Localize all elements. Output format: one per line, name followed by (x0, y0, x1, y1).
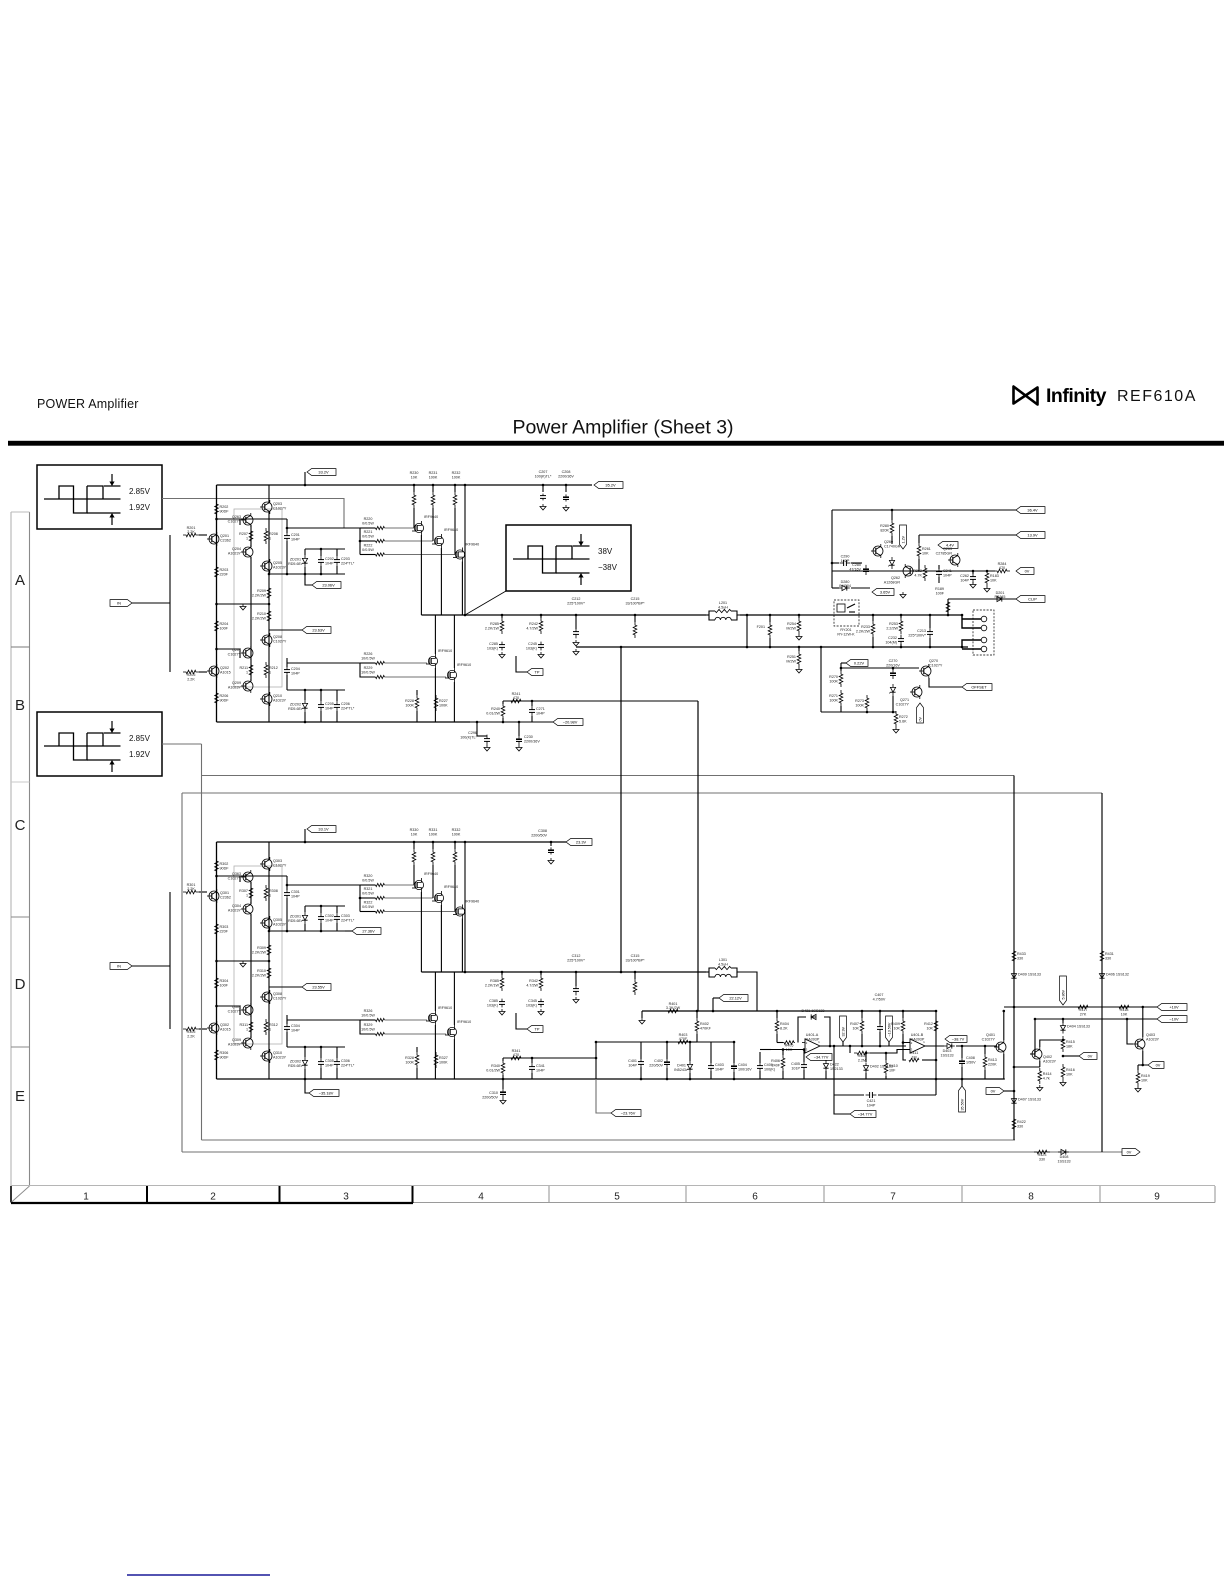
svg-text:224*TL*: 224*TL* (341, 562, 355, 566)
channel negative rail (217, 1078, 471, 1080)
wire offset row (821, 711, 896, 713)
capacitor C402 (666, 1058, 668, 1062)
transistor Q205 (262, 561, 272, 571)
op-amp U401-B (910, 1039, 925, 1053)
svg-text:103(K): 103(K) (526, 647, 537, 651)
wire from box B to feedback network (162, 743, 202, 745)
resistor R312 (264, 1019, 268, 1035)
svg-text:2.2M: 2.2M (858, 1059, 866, 1063)
svg-text:1.92V: 1.92V (129, 503, 151, 512)
capacitor C421 (834, 1094, 864, 1096)
capacitor C405 (803, 1061, 805, 1065)
svg-text:27.36V: 27.36V (362, 929, 375, 934)
resistor R241 (508, 699, 524, 703)
svg-text:1: 1 (246, 537, 248, 541)
resistor R403 (675, 1040, 691, 1044)
svg-text:0.01/2W: 0.01/2W (486, 1069, 500, 1073)
svg-text:2.85V: 2.85V (129, 734, 151, 743)
svg-text:3.65V: 3.65V (880, 590, 891, 595)
mosfet Q313 IRF9640 (455, 907, 464, 916)
svg-text:2200/36V: 2200/36V (558, 474, 574, 478)
capacitor C341 (531, 1063, 533, 1067)
svg-text:470F: 470F (679, 1037, 688, 1041)
resistor R251 (797, 651, 801, 667)
capacitor C206 (336, 701, 338, 705)
svg-text:103(K): 103(K) (487, 647, 498, 651)
svg-text:0/0.5W: 0/0.5W (362, 534, 374, 538)
wire lower fet column (434, 972, 436, 1011)
wire lower gate feeds (385, 662, 428, 664)
svg-text:0V: 0V (1025, 569, 1030, 574)
svg-text:IRF9610: IRF9610 (438, 1006, 452, 1010)
ground (902, 592, 904, 595)
svg-text:2.2K/1W: 2.2K/1W (485, 984, 500, 988)
svg-text:8: 8 (1028, 1192, 1034, 1203)
capacitor C345 (540, 999, 542, 1002)
svg-text:2.2K/2W: 2.2K/2W (856, 630, 871, 634)
svg-text:100K: 100K (829, 699, 838, 703)
wire input to bases (132, 965, 170, 967)
svg-text:100(K)TL*: 100(K)TL* (460, 735, 477, 739)
resistor R327 (434, 1052, 438, 1068)
resistor R417 (1075, 1005, 1091, 1009)
svg-text:C1027Y: C1027Y (228, 1009, 242, 1013)
resistor R221 (359, 528, 361, 555)
capacitor C303 (336, 913, 338, 917)
resistor R303 (215, 921, 219, 937)
wire left feedback drop A (201, 744, 203, 1140)
svg-text:100(K)TL*: 100(K)TL* (535, 474, 552, 478)
net tag -20.98V (470, 721, 553, 723)
svg-text:104P: 104P (291, 1029, 300, 1033)
resistor R203 (215, 564, 219, 580)
center ground rail (217, 603, 270, 605)
svg-text:A1268GR: A1268GR (884, 580, 901, 584)
svg-text:33.1V: 33.1V (318, 827, 329, 832)
svg-text:10K: 10K (1141, 1079, 1148, 1083)
resistor R329 (376, 1032, 385, 1035)
transistor Q207 (243, 648, 253, 658)
resistor R326 (287, 1019, 360, 1021)
wire Q401 collector (1003, 1011, 1005, 1040)
svg-text:100F: 100F (220, 627, 229, 631)
wire protection left drop (831, 510, 833, 588)
svg-text:1.2V: 1.2V (901, 535, 905, 543)
wire feedback riser (595, 1042, 597, 1079)
wire lower output rail (746, 615, 748, 647)
capacitor C385 (501, 999, 503, 1002)
svg-text:IRF9640: IRF9640 (444, 528, 458, 532)
svg-text:820K: 820K (880, 529, 889, 533)
wire right riser B (1101, 793, 1103, 1152)
resistor R418 (1116, 1005, 1132, 1009)
svg-text:A1015: A1015 (220, 1027, 231, 1031)
transistor Q262 (903, 566, 913, 576)
svg-text:−34.77V: −34.77V (814, 1055, 829, 1060)
capacitor C403 (710, 1062, 712, 1066)
channel Q3xx top supply rail (217, 841, 567, 843)
svg-text:470: 470 (513, 696, 519, 700)
net tag -13.56V vertical (886, 1016, 893, 1042)
resistor R411 (903, 1043, 906, 1061)
ground (242, 961, 244, 964)
capacitor C301 (286, 889, 288, 893)
svg-text:225*100V*: 225*100V* (567, 601, 585, 605)
svg-text:0V: 0V (1156, 1063, 1161, 1068)
resistor R332 (453, 849, 457, 865)
svg-text:4.7k: 4.7k (1043, 1077, 1050, 1081)
net tag CLIP (1016, 596, 1045, 603)
wire lower fet column (434, 615, 436, 654)
svg-text:D409 1SS133: D409 1SS133 (1018, 973, 1041, 977)
svg-text:IN4004: IN4004 (839, 584, 851, 588)
svg-text:TP: TP (535, 1027, 540, 1032)
svg-text:B: B (15, 697, 25, 714)
wire cap row 2 (697, 1041, 734, 1043)
wire bottom return rail B (182, 1151, 1122, 1153)
svg-text:1: 1 (83, 1192, 89, 1203)
svg-text:10K: 10K (926, 1027, 933, 1031)
zener D401 (687, 1064, 692, 1069)
svg-text:1: 1 (246, 671, 248, 675)
offset detector drop (820, 647, 822, 712)
svg-text:22.12V: 22.12V (729, 996, 742, 1001)
capacitor C405b (759, 1062, 761, 1066)
output bus (421, 614, 706, 616)
wire 13.9V (919, 534, 1016, 536)
svg-text:5.86V: 5.86V (1061, 989, 1065, 999)
svg-text:A1023Y: A1023Y (228, 1042, 242, 1046)
svg-text:4: 4 (478, 1192, 484, 1203)
mosfet Q211 IRF9640 (414, 523, 423, 532)
net tag 0V mid (1063, 1055, 1079, 1057)
svg-text:2.2K/2W: 2.2K/2W (252, 617, 267, 621)
svg-text:IN: IN (117, 601, 121, 606)
wire bottom output line to R341 (503, 1057, 596, 1059)
svg-text:104P: 104P (325, 562, 334, 566)
svg-text:100K: 100K (829, 680, 838, 684)
svg-text:KIA393P: KIA393P (910, 1038, 925, 1042)
svg-text:104P: 104P (325, 919, 334, 923)
net tag -35.18V (305, 1079, 309, 1093)
transistor Q270 (921, 666, 931, 676)
svg-text:224*TL*: 224*TL* (341, 1064, 355, 1068)
svg-text:KIA393P: KIA393P (805, 1038, 820, 1042)
svg-text:A1023Y: A1023Y (1146, 1037, 1160, 1041)
svg-text:90DF: 90DF (220, 699, 230, 703)
svg-text:C2362: C2362 (220, 895, 231, 899)
mosfet Q315 IRF9610 (447, 1027, 456, 1036)
svg-text:1S2133: 1S2133 (830, 1067, 843, 1071)
svg-text:104P: 104P (628, 1064, 637, 1068)
capacitor C262 (972, 573, 974, 577)
svg-text:4.7/2W: 4.7/2W (526, 984, 538, 988)
svg-text:90DF: 90DF (220, 867, 230, 871)
svg-text:1SS133: 1SS133 (1057, 1159, 1070, 1163)
capacitor C285 (501, 642, 503, 645)
svg-text:M/2W: M/2W (786, 627, 796, 631)
resistor R304 (215, 975, 219, 991)
svg-text:IRF9610: IRF9610 (457, 1020, 471, 1024)
resistor R253 (899, 618, 903, 634)
svg-text:10K: 10K (852, 1027, 859, 1031)
svg-text:100K: 100K (855, 704, 864, 708)
resistor R311 (249, 1019, 253, 1035)
svg-text:104P: 104P (960, 579, 969, 583)
wire base row upper (217, 876, 241, 882)
svg-text:4.7/2W: 4.7/2W (526, 627, 538, 631)
svg-text:IRF9640: IRF9640 (465, 543, 479, 547)
resistor R414 (1038, 1068, 1042, 1084)
capacitor C304 (286, 1023, 288, 1027)
svg-text:2200/36V: 2200/36V (524, 739, 540, 743)
zener D281 (889, 560, 894, 565)
resistor R306 (215, 1047, 219, 1063)
svg-text:REF610A: REF610A (1117, 388, 1197, 405)
plus10 rail (1004, 1006, 1157, 1008)
svg-text:100K: 100K (405, 704, 414, 708)
ground (242, 604, 244, 607)
mosfet Q314 IRF9610 (428, 1013, 437, 1022)
svg-text:224*TL*: 224*TL* (341, 919, 355, 923)
bottom column scale (11, 1185, 1215, 1187)
svg-text:10K: 10K (990, 579, 997, 583)
svg-text:3: 3 (343, 1192, 349, 1203)
resistor R433 (1012, 948, 1016, 964)
svg-text:E: E (15, 1088, 25, 1105)
wire right riser A (1013, 776, 1015, 1141)
svg-text:−35.18V: −35.18V (319, 1091, 334, 1096)
wire Q403 emitter (1143, 1051, 1148, 1065)
net tag 0V q403 (1148, 1062, 1164, 1069)
resistor R305 (183, 1027, 199, 1031)
svg-text:2.2K: 2.2K (187, 530, 195, 534)
resistor R233 (871, 621, 875, 637)
svg-text:IRF9640: IRF9640 (444, 885, 458, 889)
zener ZD201 (302, 558, 307, 563)
diode D409 (1011, 974, 1016, 979)
net tag 33.2V (304, 829, 306, 842)
resistor R230 (412, 492, 416, 508)
svg-text:100(K): 100(K) (764, 1068, 775, 1072)
svg-text:470: 470 (999, 566, 1005, 570)
capacitor C213 (929, 628, 931, 632)
svg-text:470KF: 470KF (700, 1027, 712, 1031)
wire bottom return rail A (202, 1139, 1016, 1141)
resistor R302 (215, 858, 219, 874)
svg-text:10K: 10K (893, 1027, 900, 1031)
svg-text:−10V: −10V (1169, 1017, 1179, 1022)
resistor R321 (359, 885, 361, 912)
net tag 0.22V (841, 662, 846, 664)
diode D421 feedback (820, 1017, 830, 1046)
wire lower gate feeds (385, 1019, 428, 1021)
resistor R407 (860, 1018, 864, 1034)
svg-text:2.2K/1W: 2.2K/1W (485, 627, 500, 631)
svg-text:IRF9640: IRF9640 (424, 872, 438, 876)
svg-text:103(K): 103(K) (526, 1004, 537, 1008)
wire left vertical Q201 branch (216, 485, 218, 722)
capacitor C204 (286, 666, 288, 670)
wire lower base row (217, 1006, 241, 1015)
svg-text:220K: 220K (988, 1063, 997, 1067)
transistor Q305 (262, 918, 272, 928)
wire gate feeds (385, 884, 415, 886)
capacitor C404 (733, 1062, 735, 1066)
net tag 0V right (986, 1088, 1004, 1095)
svg-text:2.2K: 2.2K (187, 887, 195, 891)
net tag -23.76V (596, 1079, 611, 1113)
diode D406 (1099, 974, 1104, 979)
resistor R227 (434, 695, 438, 711)
svg-text:1.92V: 1.92V (129, 750, 151, 759)
svg-text:C1027Y: C1027Y (929, 663, 943, 667)
svg-text:A1023Y: A1023Y (1043, 1059, 1057, 1063)
transistor Q260 (873, 546, 883, 556)
wire from box A to gate bias node (162, 499, 344, 529)
svg-text:IRF9610: IRF9610 (438, 649, 452, 653)
capacitor C205 (320, 701, 322, 705)
svg-text:1: 1 (269, 671, 271, 675)
svg-text:104(M): 104(M) (885, 641, 897, 645)
svg-text:2.2K: 2.2K (187, 1035, 195, 1039)
svg-text:225*100V*: 225*100V* (567, 958, 585, 962)
capacitor C302 (320, 913, 322, 917)
transistor Q307 (243, 1005, 253, 1015)
capacitor C401 (640, 1058, 642, 1062)
svg-text:2200/50V: 2200/50V (531, 833, 547, 837)
svg-text:OFFSET: OFFSET (971, 685, 987, 690)
svg-text:10K: 10K (1121, 1013, 1128, 1017)
svg-text:POWER Amplifier: POWER Amplifier (37, 397, 139, 411)
capacitor C245 (540, 642, 542, 645)
zener D271 (890, 687, 895, 692)
svg-text:104P: 104P (325, 707, 334, 711)
minus10 wire (1035, 1018, 1157, 1020)
svg-text:10K: 10K (1066, 1073, 1073, 1077)
wire lower base row (217, 649, 241, 658)
mosfet Q312 IRF9640 (434, 893, 443, 902)
resistor R431 (1100, 948, 1104, 964)
test point tag (516, 1013, 527, 1029)
title rule (8, 441, 1224, 446)
mosfet Q213 IRF9640 (455, 550, 464, 559)
svg-text:10/0.5W: 10/0.5W (361, 1013, 375, 1017)
diode D280 (842, 585, 847, 590)
wire gate feeds (385, 527, 415, 529)
wire upper cluster row (269, 930, 345, 932)
zener ZD301 (302, 915, 307, 920)
net tag 35.56V below (961, 1079, 963, 1086)
svg-text:0.22V: 0.22V (854, 661, 865, 666)
wire offset mid (841, 667, 919, 669)
mosfet Q214 IRF9610 (428, 656, 437, 665)
mosfet Q215 IRF9610 (447, 670, 456, 679)
svg-text:220F: 220F (220, 930, 229, 934)
wire opamp B out (925, 1045, 944, 1047)
resistor R262 (923, 565, 927, 581)
svg-text:100K: 100K (452, 832, 461, 836)
resistor R410 (884, 1060, 888, 1076)
svg-text:100F: 100F (936, 591, 945, 595)
net tag -34.77V second (834, 1095, 850, 1114)
svg-text:C1027Y: C1027Y (273, 863, 287, 867)
ground (798, 634, 800, 637)
svg-text:6: 6 (752, 1192, 758, 1203)
resistor R341 (508, 1056, 524, 1060)
svg-text:33.2V: 33.2V (318, 470, 329, 475)
svg-text:23.55V: 23.55V (312, 985, 325, 990)
resistor R273 (865, 695, 869, 711)
transistor Q310 (262, 1051, 272, 1061)
svg-text:RD5.6E: RD5.6E (288, 1064, 301, 1068)
svg-text:C1027Y: C1027Y (228, 652, 242, 656)
transistor Q201 (209, 534, 219, 544)
resistor R284 (994, 569, 1010, 573)
svg-text:4.7/50V: 4.7/50V (873, 997, 886, 1001)
diode D402 (863, 1066, 868, 1071)
wire Q402 collector (1040, 1040, 1063, 1047)
svg-text:0V: 0V (1127, 1150, 1132, 1155)
svg-text:1: 1 (246, 1028, 248, 1032)
resistor R404 (775, 1018, 779, 1034)
svg-text:1: 1 (269, 1028, 271, 1032)
wire channel-2 network to opamp rail (740, 972, 757, 1011)
resistor R310 (267, 965, 271, 981)
svg-text:C1027Y: C1027Y (228, 519, 242, 523)
capacitor C202 (320, 556, 322, 560)
svg-text:−34.77V: −34.77V (858, 1112, 873, 1117)
border corner bevel (10, 1186, 12, 1203)
wire offset out (929, 678, 962, 687)
main rail-to-bus vertical (464, 842, 466, 972)
transistor Q209 (243, 681, 253, 691)
svg-text:104P: 104P (867, 1103, 876, 1107)
svg-text:100/16V: 100/16V (738, 1068, 752, 1072)
svg-text:IRF9640: IRF9640 (424, 515, 438, 519)
main rail-to-bus vertical (464, 485, 466, 615)
svg-text:2.2K/2W: 2.2K/2W (252, 594, 267, 598)
net tag -38.7V (945, 1036, 967, 1043)
svg-text:A1023Y: A1023Y (273, 698, 287, 702)
svg-text:104P: 104P (536, 712, 545, 716)
net tag VAS out (269, 629, 302, 631)
ground (895, 727, 897, 730)
svg-text:100K: 100K (429, 832, 438, 836)
svg-text:2200/50V: 2200/50V (482, 1095, 498, 1099)
resistor R201 (183, 533, 199, 537)
resistor R206 (215, 690, 219, 706)
svg-text:10/0.5W: 10/0.5W (361, 670, 375, 674)
svg-text:104P: 104P (715, 1068, 724, 1072)
diode D201 RB115 (997, 596, 1002, 601)
svg-text:RB115: RB115 (994, 595, 1005, 599)
waveform inset box 38V/-38V (506, 525, 631, 591)
net tag 3.65V (872, 589, 894, 596)
svg-text:A1023Y: A1023Y (228, 551, 242, 555)
svg-text:−20.98V: −20.98V (563, 720, 578, 725)
resistor R415 (1061, 1036, 1065, 1052)
resistor R222 (376, 553, 385, 556)
diode D403 (947, 1043, 952, 1048)
resistor R228 (415, 695, 419, 711)
svg-text:35.56V: 35.56V (960, 1098, 964, 1110)
svg-text:0/0.5W: 0/0.5W (362, 905, 374, 909)
net tag OFFSET (962, 684, 992, 691)
capacitor C232 (900, 635, 902, 639)
protection rail 36.4V (832, 509, 1016, 511)
ground (540, 652, 542, 655)
